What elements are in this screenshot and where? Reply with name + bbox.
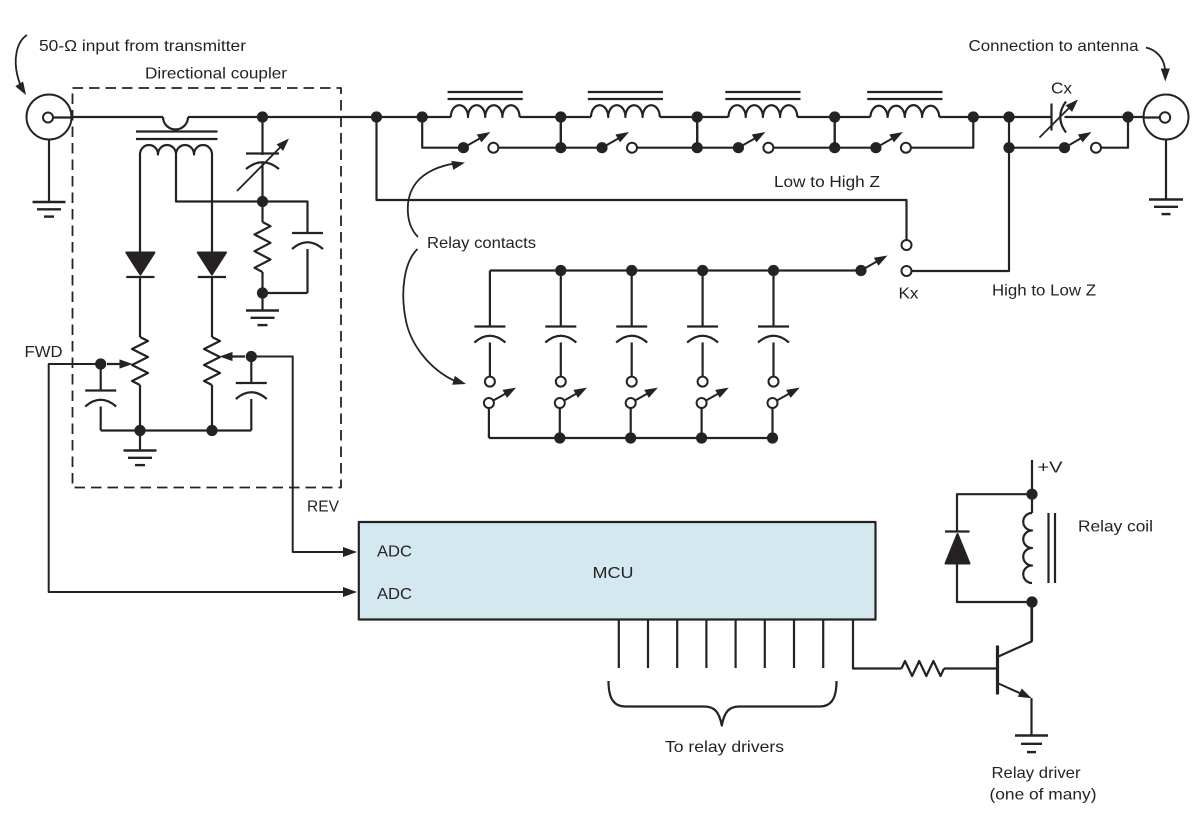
resistor R4 (base) [902, 661, 945, 676]
node (K3 common) [733, 142, 744, 153]
relay Kx contact (upper) [902, 240, 912, 250]
ground (antenna connector) [1149, 200, 1183, 215]
wire (capacitor bank top bus) [490, 269, 861, 271]
label: 50-ohm input from transmitter [39, 38, 247, 55]
relay contact (bank cap 5) [768, 377, 800, 438]
wire (main line L4 to Cx) [939, 116, 1051, 118]
variable capacitor C1 (coupler) [237, 117, 289, 202]
label: +V [1038, 460, 1063, 477]
wire (R4 to Q1 base) [944, 667, 996, 669]
node (K2 common) [596, 142, 607, 153]
node (riser / Cx bypass row) [1003, 142, 1014, 153]
relay contact K2 (bypass switch) [561, 117, 697, 153]
potentiometer R2 (FWD) [107, 337, 148, 385]
node (top bus / selector arm) [855, 265, 866, 276]
capacitor C5 (bank) [474, 271, 505, 377]
MCU block [359, 522, 876, 620]
wire (Kx to main line riser) [912, 117, 1010, 271]
wire (pot R2 bottom) [139, 385, 141, 431]
variable capacitor Cx [1040, 100, 1079, 138]
ground (coupler RC) [246, 311, 279, 326]
wire (capacitor bank bottom bus) [489, 437, 774, 439]
transformer T1 secondary [140, 145, 212, 154]
label: Directional coupler [145, 66, 288, 83]
ground (relay driver) [1015, 736, 1048, 753]
wire (Q1 emitter to ground) [1030, 698, 1032, 735]
diode D3 (snubber) [945, 532, 970, 564]
svg-text:FWD: FWD [25, 344, 63, 361]
relay contact (Cx bypass) [1009, 117, 1128, 153]
svg-text:Low to High Z: Low to High Z [774, 174, 880, 191]
wire (snubber left branch) [957, 494, 1032, 531]
node (coil / collector) [1026, 596, 1037, 607]
node (bottom bus junction) [767, 432, 778, 443]
wire (C2 to node C) [263, 292, 308, 294]
wire (FWD to MCU ADC) [49, 364, 357, 597]
node (main line / L1 bypass) [417, 111, 428, 122]
transformer T1 core [136, 132, 218, 140]
wire (J2 to ground) [1165, 140, 1167, 200]
capacitor C2 (coupler) [292, 233, 323, 293]
wire (coil to Q1 collector) [1031, 602, 1033, 642]
node (L2/L3 junction) [692, 111, 703, 122]
svg-text:ADC: ADC [377, 544, 412, 561]
inductor L2 [591, 105, 660, 117]
svg-text:High to Low Z: High to Low Z [992, 283, 1096, 300]
relay contact K4 (bypass switch) [835, 117, 974, 153]
capacitor C3 (FWD filter) [85, 364, 116, 431]
node (K2 row junction) [555, 142, 566, 153]
label: FWD [25, 344, 63, 361]
node (bottom bus junction) [625, 432, 636, 443]
node (K4 common) [870, 142, 881, 153]
label: Relay contacts [427, 235, 536, 252]
directional coupler boundary (dashed box) [73, 88, 342, 488]
inductor L1 [451, 105, 520, 117]
wire (Low-to-High-Z feed) [377, 117, 907, 240]
node (K1 common) [458, 142, 469, 153]
ground (coupler bus) [124, 451, 157, 466]
inductor L4 core [867, 92, 942, 99]
arrow to inductor relay contact [408, 161, 465, 237]
wire (coupler bottom bus) [101, 429, 252, 431]
svg-text:+V: +V [1038, 460, 1063, 477]
node (L3/L4 junction) [829, 111, 840, 122]
wire (secondary center tap to node B) [176, 155, 263, 202]
inductor L1 core [448, 92, 523, 99]
node (top bus junction) [768, 265, 779, 276]
node (+V / snubber) [1026, 489, 1037, 500]
diode D1 [126, 253, 154, 278]
relay contact K1 (bypass switch) [422, 117, 561, 153]
wire (secondary left to D1) [139, 155, 141, 253]
node C [257, 287, 268, 298]
node (bus / R2) [134, 425, 145, 436]
node (top bus junction) [626, 265, 637, 276]
relay contact (bank cap 3) [626, 377, 658, 438]
label: (one of many) [990, 787, 1097, 804]
relay coil K1 winding [1023, 494, 1032, 583]
svg-text:REV: REV [307, 499, 339, 516]
wire (D1 to pot R2) [139, 277, 141, 337]
svg-text:(one of many): (one of many) [990, 787, 1097, 804]
node (K3 row junction) [692, 142, 703, 153]
svg-text:Cx: Cx [1051, 81, 1072, 98]
capacitor C4 (REV filter) [236, 357, 267, 431]
wire (secondary right to D2) [211, 155, 213, 253]
svg-text:Connection to antenna: Connection to antenna [969, 38, 1139, 55]
capacitor C6 (bank) [545, 271, 576, 377]
svg-text:To relay drivers: To relay drivers [665, 739, 784, 756]
coax connector J1 (transmitter input) [27, 95, 72, 140]
node (Cx output) [1122, 111, 1133, 122]
node (FWD tap) [95, 358, 106, 369]
node (L4 output) [968, 111, 979, 122]
wire (pot R3 bottom) [211, 385, 213, 431]
wire (main line, transformer to L1) [188, 116, 451, 118]
relay Kx contact (lower) [902, 266, 912, 276]
wire (snubber bottom) [957, 564, 1032, 603]
transformer T1 primary [163, 117, 188, 130]
transistor Q1 base bar [996, 646, 999, 695]
wire (main line L2-L3) [660, 116, 729, 118]
capacitor C9 (bank) [758, 271, 789, 377]
label: Connection to antenna [969, 38, 1139, 55]
relay contact K3 (bypass switch) [697, 117, 835, 153]
node (L1/L2 junction) [555, 111, 566, 122]
node (bus / R3) [206, 425, 217, 436]
inductor L3 core [725, 92, 800, 99]
arrow to capacitor relay contact [403, 249, 466, 385]
wire (D2 to pot R3) [211, 277, 213, 337]
arrow to antenna connector [1146, 48, 1170, 82]
ground (input connector) [33, 202, 66, 217]
wire (node C to ground) [261, 293, 263, 311]
wire (main line L1-L2) [520, 116, 591, 118]
transistor Q1 emitter [999, 684, 1032, 699]
svg-text:Relay contacts: Relay contacts [427, 235, 536, 252]
label: ADC (REV input) [377, 544, 412, 561]
svg-text:50-Ω input from transmitter: 50-Ω input from transmitter [39, 38, 247, 55]
coax connector J2 (antenna) [1144, 95, 1189, 140]
node (top bus junction) [555, 265, 566, 276]
inductor L2 core [588, 92, 663, 99]
MCU output pins [619, 620, 823, 669]
label: MCU [593, 565, 634, 582]
resistor R1 (coupler) [255, 202, 271, 294]
svg-text:ADC: ADC [377, 586, 412, 603]
potentiometer R3 (REV) [204, 337, 245, 385]
wire (main line, J1 to transformer) [72, 116, 164, 118]
label: REV [307, 499, 339, 516]
wire (bus to ground) [139, 431, 141, 451]
label: Low to High Z [774, 174, 880, 191]
label: To relay drivers [665, 739, 784, 756]
transistor Q1 collector [999, 602, 1032, 657]
diode D2 [198, 253, 226, 278]
node (bottom bus junction) [696, 432, 707, 443]
label: Kx [899, 286, 919, 303]
svg-text:Relay coil: Relay coil [1078, 519, 1153, 536]
svg-text:Directional coupler: Directional coupler [145, 66, 288, 83]
label: ADC (FWD input) [377, 586, 412, 603]
wire (MCU pin to relay driver) [853, 620, 902, 669]
selector arm to Kx [861, 256, 888, 271]
svg-text:Kx: Kx [899, 286, 919, 303]
node (REV tap) [246, 351, 257, 362]
node (main line / Kx riser) [1003, 111, 1014, 122]
wire (J1 to ground) [48, 140, 50, 203]
wire (+V feed) [1031, 460, 1033, 494]
node (main line / Low-to-High-Z tap) [371, 111, 382, 122]
brace (to relay drivers) [609, 681, 837, 726]
node (K4 row junction) [829, 142, 840, 153]
wire (main line L3-L4) [797, 116, 870, 118]
node (Cx bypass common) [1059, 142, 1070, 153]
node (main line / coupler cap) [257, 111, 268, 122]
arrow to input connector [15, 35, 27, 95]
capacitor C8 (bank) [687, 271, 718, 377]
inductor L4 [870, 105, 939, 117]
label: Relay driver [992, 765, 1082, 782]
svg-text:Relay driver: Relay driver [992, 765, 1082, 782]
node (top bus junction) [697, 265, 708, 276]
relay coil K1 core [1049, 513, 1056, 583]
relay contact (bank cap 4) [697, 377, 729, 438]
node B (coupler divider) [257, 196, 268, 207]
label: High to Low Z [992, 283, 1096, 300]
label: Relay coil [1078, 519, 1153, 536]
relay contact (bank cap 2) [555, 377, 587, 438]
label: Cx [1051, 81, 1072, 98]
wire (node B to C2) [263, 202, 308, 233]
relay contact (bank cap 1) [484, 377, 516, 438]
capacitor C7 (bank) [616, 271, 647, 377]
wire (REV to MCU ADC) [251, 357, 357, 558]
wire (Cx to J2) [1065, 116, 1144, 118]
inductor L3 [729, 105, 798, 117]
node (bottom bus junction) [554, 432, 565, 443]
svg-text:MCU: MCU [593, 565, 634, 582]
